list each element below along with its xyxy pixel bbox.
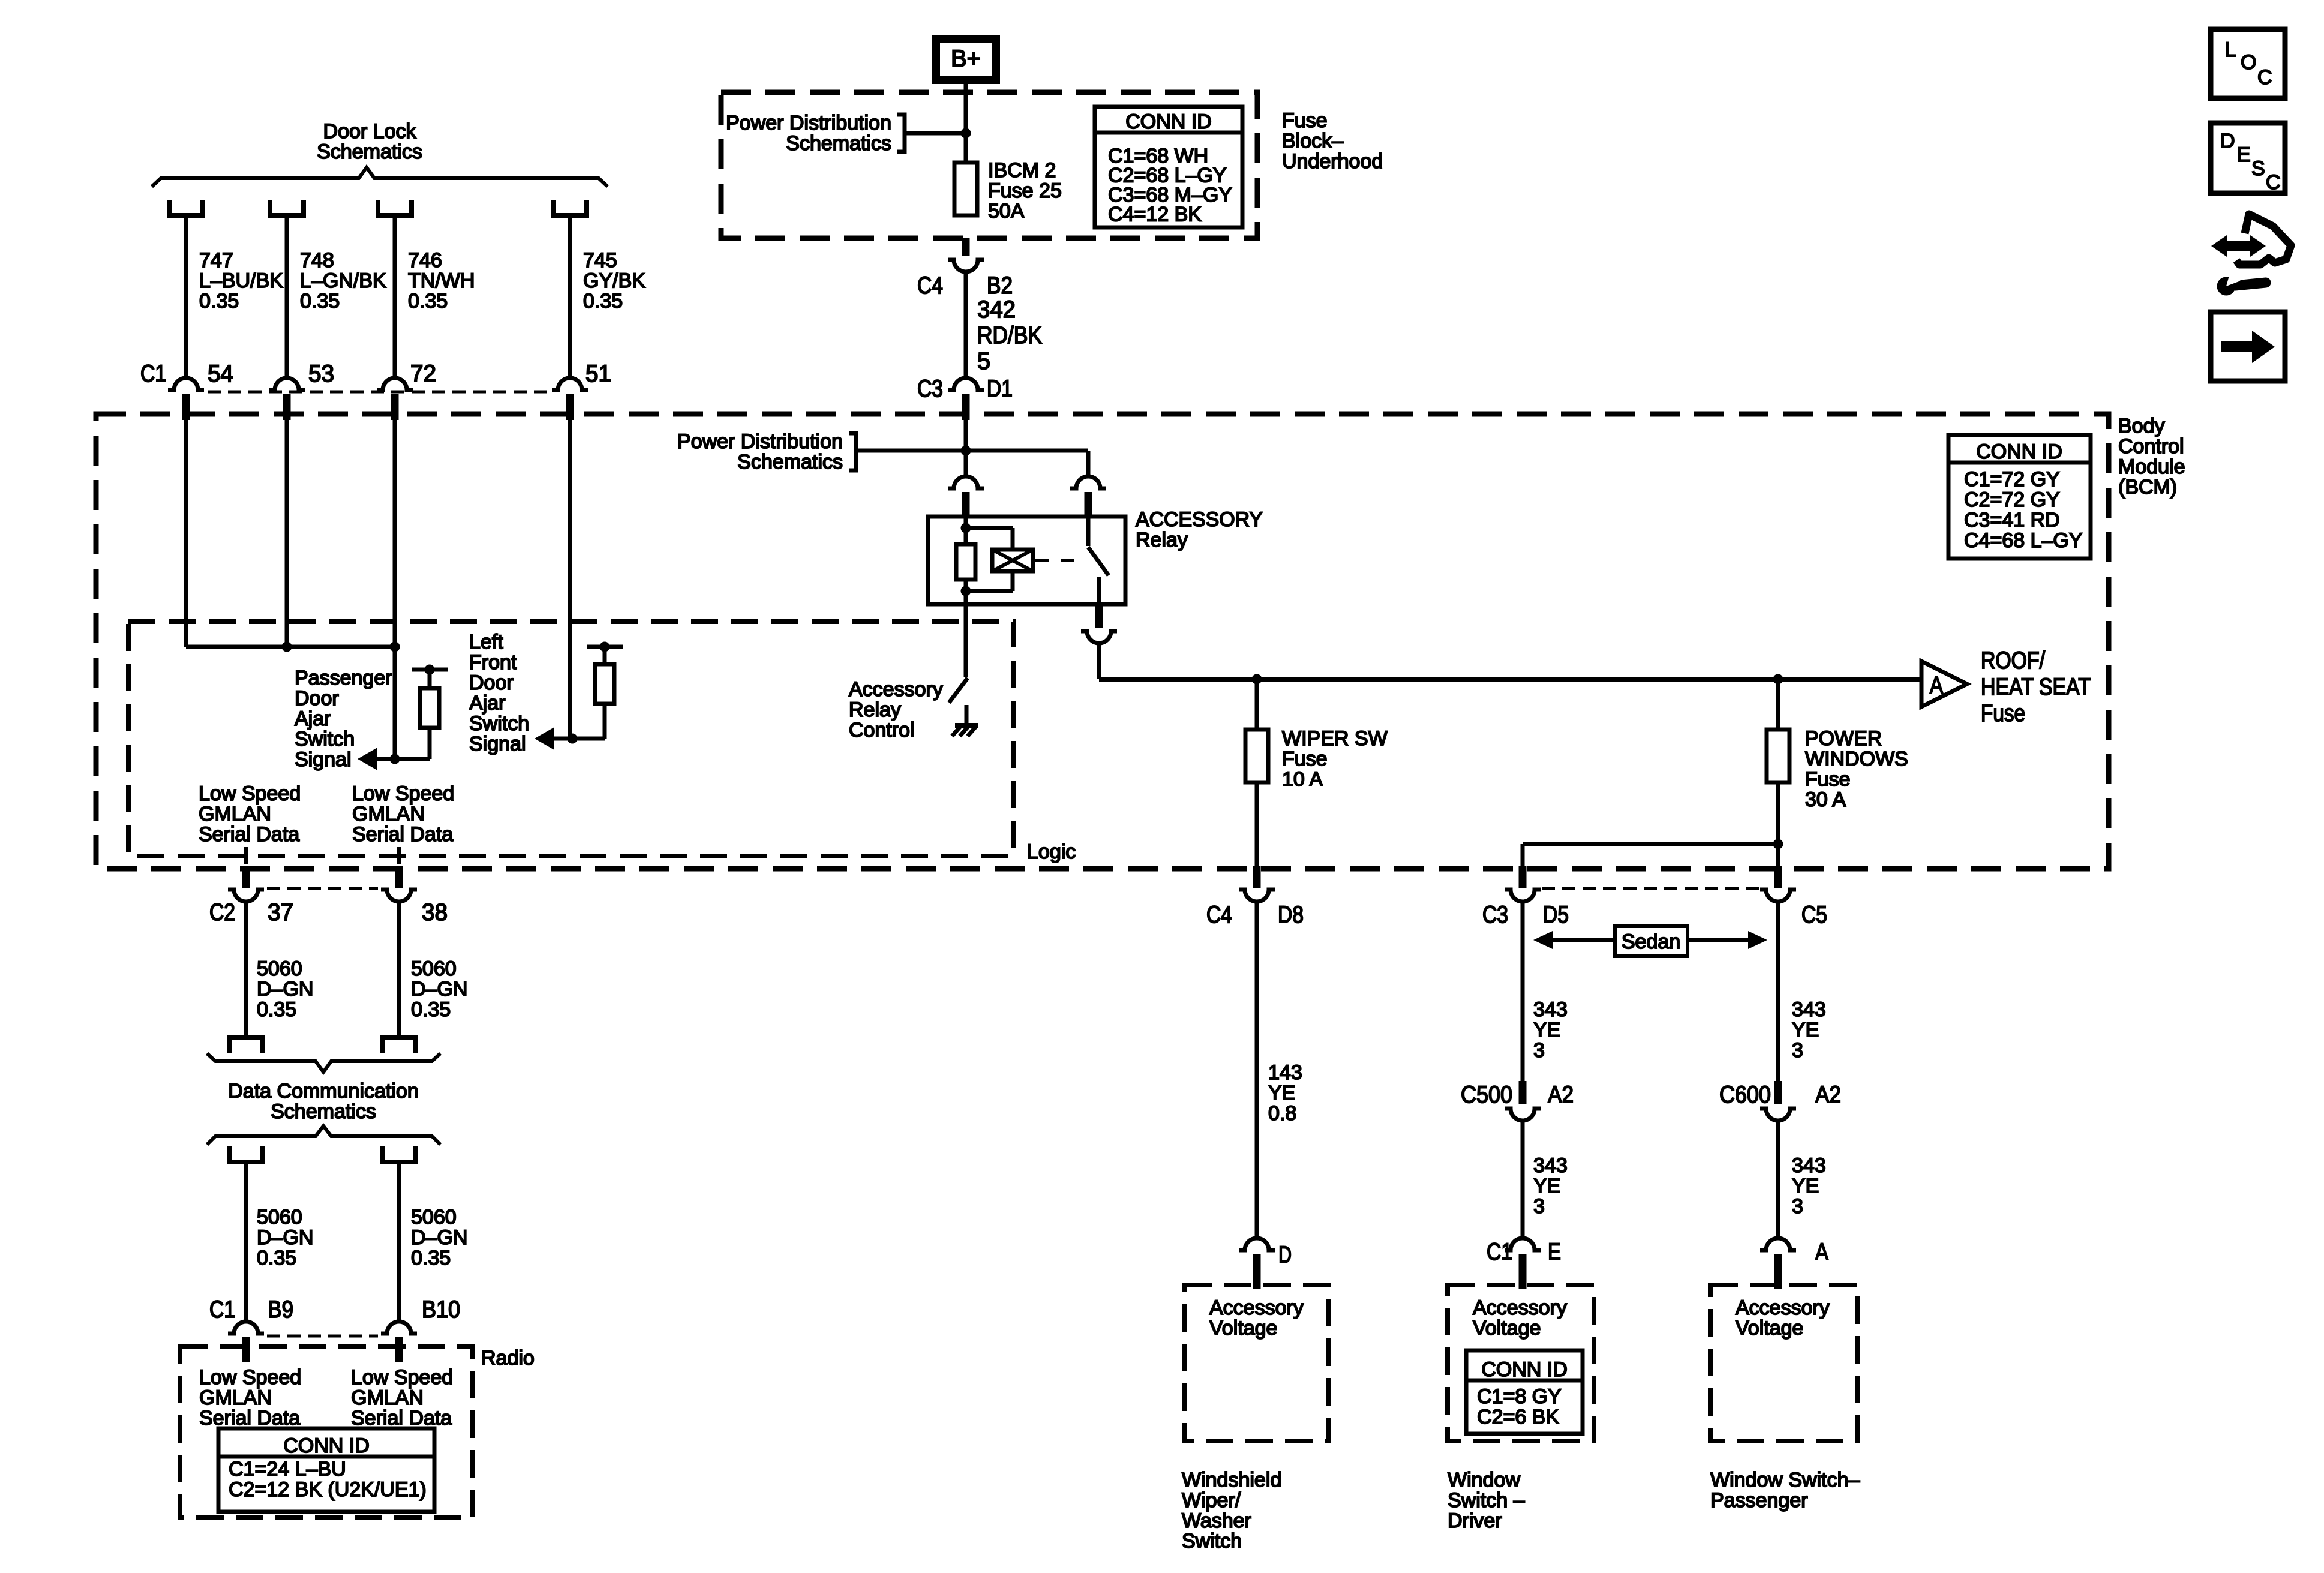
connector C3/C5 dashed link bbox=[1542, 887, 1761, 890]
svg-text:Body: Body bbox=[2118, 415, 2165, 437]
accessory voltage feed wire bbox=[1097, 643, 1101, 679]
wire 748 L–GN/BK 0.35 bbox=[285, 215, 289, 379]
svg-text:Switch –: Switch – bbox=[1448, 1489, 1525, 1512]
Sedan range arrow bbox=[1545, 938, 1755, 942]
svg-text:Low Speed: Low Speed bbox=[199, 782, 301, 805]
svg-text:Power Distribution: Power Distribution bbox=[726, 112, 891, 134]
svg-text:5: 5 bbox=[977, 348, 990, 374]
svg-text:A: A bbox=[1815, 1239, 1828, 1265]
svg-text:Door: Door bbox=[295, 687, 339, 710]
junction node bbox=[1252, 674, 1262, 685]
connector arc C1 bbox=[269, 378, 305, 390]
fuse block underhood dashed box bbox=[721, 92, 1257, 238]
connector to door lock schematic, wire 745 bbox=[553, 200, 587, 215]
svg-text:5060: 5060 bbox=[257, 1206, 302, 1229]
svg-text:ROOF/: ROOF/ bbox=[1981, 647, 2046, 674]
svg-text:0.35: 0.35 bbox=[257, 998, 296, 1021]
svg-text:0.8: 0.8 bbox=[1268, 1102, 1296, 1125]
svg-text:ACCESSORY: ACCESSORY bbox=[1136, 508, 1263, 531]
svg-text:B+: B+ bbox=[951, 46, 981, 72]
connector C3 pin D5 bbox=[1519, 866, 1527, 888]
connector C2 pin 38 bbox=[395, 866, 403, 888]
svg-text:D: D bbox=[1278, 1242, 1292, 1268]
svg-text:C2=12 BK (U2K/UE1): C2=12 BK (U2K/UE1) bbox=[229, 1478, 427, 1501]
svg-text:Ajar: Ajar bbox=[469, 692, 505, 715]
svg-text:Fuse: Fuse bbox=[1282, 748, 1328, 770]
connector C5 bbox=[1774, 866, 1782, 888]
bus wire joining door ajar inputs bbox=[186, 645, 395, 649]
svg-text:Accessory: Accessory bbox=[1209, 1296, 1304, 1319]
svg-text:Washer: Washer bbox=[1182, 1509, 1251, 1532]
svg-text:Block–: Block– bbox=[1282, 130, 1343, 152]
svg-text:Accessory: Accessory bbox=[1736, 1296, 1830, 1319]
CONN ID table (driver switch) bbox=[1466, 1350, 1583, 1434]
connector from data communication schematics bbox=[229, 1146, 263, 1162]
svg-text:GMLAN: GMLAN bbox=[199, 803, 271, 825]
connector C1 dashed link bbox=[208, 391, 548, 394]
pin stub bbox=[566, 394, 574, 420]
svg-text:Logic: Logic bbox=[1027, 840, 1076, 863]
svg-text:0.35: 0.35 bbox=[408, 290, 448, 313]
bracket to power distribution schematics bbox=[897, 115, 905, 152]
svg-text:D1: D1 bbox=[987, 376, 1013, 402]
svg-text:C4: C4 bbox=[1206, 902, 1232, 928]
svg-text:D8: D8 bbox=[1278, 902, 1304, 928]
svg-text:Schematics: Schematics bbox=[271, 1100, 376, 1123]
svg-text:Sedan: Sedan bbox=[1622, 930, 1680, 953]
svg-text:B9: B9 bbox=[268, 1296, 293, 1323]
svg-text:Voltage: Voltage bbox=[1209, 1317, 1277, 1340]
WIPER SW fuse 10A bbox=[1255, 679, 1259, 730]
wire 143 YE 0.8 bbox=[1255, 900, 1259, 1238]
DESC icon box bbox=[2211, 123, 2285, 193]
wire 748 into BCM bbox=[285, 420, 289, 647]
POWER WINDOWS fuse 30A bbox=[1776, 679, 1780, 730]
svg-text:Schematics: Schematics bbox=[317, 140, 422, 163]
wire 745 GY/BK 0.35 bbox=[568, 215, 572, 379]
GMLAN wire 38 bbox=[397, 847, 401, 864]
connector to data communication schematics bbox=[229, 1037, 263, 1053]
connector arc C1 bbox=[377, 378, 413, 390]
relay mechanical link (dashed) bbox=[1035, 559, 1081, 562]
svg-text:3: 3 bbox=[1792, 1039, 1803, 1062]
svg-text:Control: Control bbox=[2118, 435, 2184, 458]
svg-text:72: 72 bbox=[410, 361, 436, 387]
svg-text:D: D bbox=[2220, 130, 2235, 152]
svg-text:YE: YE bbox=[1792, 1019, 1819, 1041]
junction node bbox=[282, 642, 292, 652]
svg-text:WINDOWS: WINDOWS bbox=[1805, 748, 1908, 770]
svg-text:0.35: 0.35 bbox=[300, 290, 340, 313]
svg-text:L–BU/BK: L–BU/BK bbox=[199, 269, 283, 292]
svg-text:Switch: Switch bbox=[469, 712, 529, 735]
Sedan box bbox=[1615, 926, 1688, 956]
svg-text:POWER: POWER bbox=[1805, 727, 1882, 750]
svg-text:WIPER SW: WIPER SW bbox=[1282, 727, 1388, 750]
window switch passenger dashed box bbox=[1710, 1285, 1857, 1441]
svg-text:YE: YE bbox=[1792, 1175, 1819, 1197]
svg-text:Signal: Signal bbox=[469, 733, 526, 755]
svg-text:YE: YE bbox=[1533, 1175, 1560, 1197]
Logic dashed box bbox=[128, 622, 1014, 856]
radio GMLAN wire (B10) bbox=[397, 1162, 401, 1322]
svg-text:Fuse: Fuse bbox=[1805, 768, 1851, 791]
svg-text:747: 747 bbox=[199, 249, 233, 272]
connector arc C1 bbox=[552, 378, 588, 390]
svg-text:5060: 5060 bbox=[411, 1206, 457, 1229]
connector C4/B2 below fuse block bbox=[962, 238, 970, 256]
svg-text:Switch: Switch bbox=[1182, 1530, 1242, 1553]
svg-text:B2: B2 bbox=[987, 272, 1013, 299]
svg-text:L: L bbox=[2225, 38, 2236, 61]
svg-text:343: 343 bbox=[1792, 998, 1826, 1021]
svg-text:(BCM): (BCM) bbox=[2118, 476, 2177, 499]
svg-text:0.35: 0.35 bbox=[583, 290, 623, 313]
svg-text:GMLAN: GMLAN bbox=[351, 1386, 424, 1409]
diagnostic icon vehicle outline bbox=[2236, 214, 2291, 265]
svg-text:IBCM 2: IBCM 2 bbox=[988, 159, 1056, 182]
LOC icon box bbox=[2211, 29, 2285, 98]
wire 747 L–BU/BK 0.35 bbox=[184, 215, 188, 379]
svg-text:C: C bbox=[2257, 66, 2272, 89]
svg-text:Accessory: Accessory bbox=[1473, 1296, 1567, 1319]
svg-text:CONN ID: CONN ID bbox=[1481, 1358, 1568, 1381]
svg-text:C2: C2 bbox=[209, 899, 235, 926]
relay switch bbox=[1086, 518, 1091, 546]
svg-text:745: 745 bbox=[583, 249, 617, 272]
svg-text:C1: C1 bbox=[209, 1296, 235, 1323]
svg-text:C2=72 GY: C2=72 GY bbox=[1964, 488, 2060, 511]
svg-text:54: 54 bbox=[208, 361, 233, 387]
svg-text:Low Speed: Low Speed bbox=[352, 782, 454, 805]
junction node bbox=[961, 446, 971, 456]
CONN ID table (fuse block) bbox=[1095, 107, 1242, 227]
brace to data communication schematics bbox=[207, 1053, 440, 1072]
brace from data communication schematics bbox=[207, 1126, 440, 1145]
connector from data communication schematics bbox=[382, 1146, 416, 1162]
connector to data communication schematics bbox=[382, 1037, 416, 1053]
wire bracket to accessory relay bbox=[856, 449, 1088, 453]
svg-text:Ajar: Ajar bbox=[295, 707, 331, 730]
svg-text:Front: Front bbox=[469, 651, 517, 674]
svg-text:CONN ID: CONN ID bbox=[1125, 110, 1212, 133]
svg-text:343: 343 bbox=[1792, 1154, 1826, 1177]
svg-text:Schematics: Schematics bbox=[737, 451, 843, 473]
svg-text:10 A: 10 A bbox=[1282, 768, 1323, 791]
GMLAN wire 5060 (38) bbox=[397, 900, 401, 1037]
passenger door ajar pull-up resistor bbox=[412, 668, 448, 672]
svg-text:S: S bbox=[2251, 157, 2265, 180]
svg-text:Passenger: Passenger bbox=[295, 667, 392, 689]
Body Control Module dashed box bbox=[96, 414, 2109, 869]
svg-text:C600: C600 bbox=[1719, 1082, 1771, 1108]
connector to door lock schematic, wire 748 bbox=[270, 200, 304, 215]
svg-text:C3: C3 bbox=[917, 376, 943, 402]
svg-text:C: C bbox=[2266, 171, 2281, 194]
svg-text:C1=24 L–BU: C1=24 L–BU bbox=[229, 1458, 346, 1481]
brace to Door Lock Schematics bbox=[152, 167, 608, 187]
left front door ajar pull-up resistor bbox=[587, 645, 623, 649]
svg-text:C4: C4 bbox=[917, 272, 943, 299]
svg-text:Control: Control bbox=[849, 719, 915, 742]
svg-text:Power Distribution: Power Distribution bbox=[677, 430, 843, 453]
svg-text:L–GN/BK: L–GN/BK bbox=[300, 269, 386, 292]
svg-text:Signal: Signal bbox=[295, 748, 352, 771]
svg-text:C1=8 GY: C1=8 GY bbox=[1477, 1385, 1562, 1408]
svg-text:5060: 5060 bbox=[411, 957, 457, 980]
connector arc C1 bbox=[168, 378, 204, 390]
svg-text:3: 3 bbox=[1792, 1195, 1803, 1218]
junction node bbox=[1773, 674, 1783, 685]
arrow passenger door ajar switch signal bbox=[358, 748, 377, 770]
pin stub bbox=[283, 394, 291, 420]
relay output connector bbox=[1095, 604, 1103, 628]
wire 746 TN/WH 0.35 bbox=[393, 215, 397, 379]
radio GMLAN wire (B9) bbox=[244, 1162, 248, 1322]
svg-text:343: 343 bbox=[1533, 1154, 1568, 1177]
svg-text:Switch: Switch bbox=[295, 728, 355, 751]
svg-text:C1: C1 bbox=[140, 361, 166, 387]
svg-text:Data Communication: Data Communication bbox=[228, 1080, 418, 1103]
svg-text:Passenger: Passenger bbox=[1710, 1489, 1808, 1512]
svg-text:Serial Data: Serial Data bbox=[351, 1407, 452, 1430]
svg-text:CONN ID: CONN ID bbox=[1976, 440, 2062, 463]
diagnostic icon double arrow bbox=[2224, 241, 2252, 251]
svg-text:CONN ID: CONN ID bbox=[283, 1434, 370, 1457]
svg-text:Relay: Relay bbox=[849, 698, 901, 721]
svg-text:143: 143 bbox=[1268, 1061, 1302, 1084]
svg-text:342: 342 bbox=[977, 296, 1016, 323]
GMLAN wire 5060 (37) bbox=[244, 900, 248, 1037]
svg-text:Voltage: Voltage bbox=[1473, 1317, 1541, 1340]
fuse IBCM 2 Fuse 25 50A bbox=[954, 163, 977, 215]
svg-text:B10: B10 bbox=[422, 1296, 460, 1323]
wire into relay switch feed bbox=[1086, 451, 1091, 476]
svg-text:Serial Data: Serial Data bbox=[199, 1407, 300, 1430]
svg-text:Fuse: Fuse bbox=[1981, 700, 2025, 727]
svg-text:C2=6 BK: C2=6 BK bbox=[1477, 1406, 1559, 1428]
connector arc relay switch feed bbox=[1070, 476, 1106, 488]
svg-text:O: O bbox=[2241, 51, 2256, 74]
svg-text:TN/WH: TN/WH bbox=[408, 269, 475, 292]
svg-text:53: 53 bbox=[308, 361, 334, 387]
svg-text:50A: 50A bbox=[988, 200, 1025, 223]
svg-text:Fuse 25: Fuse 25 bbox=[988, 179, 1062, 202]
svg-text:GMLAN: GMLAN bbox=[352, 803, 425, 825]
svg-text:Module: Module bbox=[2118, 455, 2185, 478]
connector arc relay coil feed bbox=[948, 476, 984, 488]
forward arrow icon box bbox=[2211, 312, 2285, 381]
svg-text:E: E bbox=[1548, 1239, 1561, 1265]
svg-text:D–GN: D–GN bbox=[411, 978, 467, 1001]
svg-text:GY/BK: GY/BK bbox=[583, 269, 645, 292]
svg-text:0.35: 0.35 bbox=[257, 1247, 296, 1269]
svg-text:Wiper/: Wiper/ bbox=[1182, 1489, 1241, 1512]
svg-text:C1=72 GY: C1=72 GY bbox=[1964, 468, 2060, 491]
wire bracket to B+ feed bbox=[905, 131, 966, 136]
connector C1 dashed link bbox=[267, 1335, 378, 1338]
wire 343 YE 3 (driver lower) bbox=[1521, 1121, 1525, 1238]
wire B+ to fuse bbox=[964, 83, 968, 163]
wire to left front signal arrow bbox=[554, 737, 605, 741]
svg-text:YE: YE bbox=[1268, 1082, 1295, 1104]
svg-text:C4=12 BK: C4=12 BK bbox=[1108, 203, 1202, 226]
GMLAN wire 37 bbox=[244, 847, 248, 864]
relay suppressor branch bbox=[966, 526, 1013, 530]
connector to door lock schematic, wire 747 bbox=[169, 200, 203, 215]
svg-text:746: 746 bbox=[408, 249, 442, 272]
junction node bbox=[1773, 839, 1783, 849]
connector C4 pin D8 bbox=[1253, 866, 1261, 888]
svg-text:Low Speed: Low Speed bbox=[199, 1366, 301, 1389]
svg-text:5060: 5060 bbox=[257, 957, 302, 980]
wire to passenger signal arrow bbox=[377, 757, 430, 761]
arrow left front door ajar switch signal bbox=[535, 727, 554, 750]
svg-text:D–GN: D–GN bbox=[257, 978, 313, 1001]
connector C2 pin 37 bbox=[242, 866, 250, 888]
svg-text:Serial Data: Serial Data bbox=[199, 823, 299, 846]
svg-text:C4=68 L–GY: C4=68 L–GY bbox=[1964, 529, 2083, 552]
svg-text:343: 343 bbox=[1533, 998, 1568, 1021]
connector to door lock schematic, wire 746 bbox=[378, 200, 412, 215]
svg-text:37: 37 bbox=[268, 899, 293, 926]
svg-text:A: A bbox=[1930, 672, 1943, 698]
svg-text:Accessory: Accessory bbox=[849, 678, 943, 701]
svg-text:C3=41 RD: C3=41 RD bbox=[1964, 509, 2060, 532]
wire 745 into BCM bbox=[568, 420, 572, 739]
junction node bbox=[961, 128, 971, 139]
bracket to power distribution schematics bbox=[849, 433, 856, 470]
svg-text:A2: A2 bbox=[1548, 1082, 1574, 1108]
svg-text:Window Switch–: Window Switch– bbox=[1710, 1469, 1860, 1491]
svg-text:Underhood: Underhood bbox=[1282, 150, 1383, 173]
Radio dashed box bbox=[180, 1347, 473, 1518]
svg-text:GMLAN: GMLAN bbox=[199, 1386, 272, 1409]
wire 342 RD/BK 5 bbox=[964, 272, 968, 379]
svg-text:3: 3 bbox=[1533, 1195, 1545, 1218]
junction node bbox=[390, 642, 400, 652]
svg-text:Fuse: Fuse bbox=[1282, 109, 1328, 132]
svg-text:Windshield: Windshield bbox=[1182, 1469, 1281, 1491]
wire into relay coil bbox=[964, 420, 968, 476]
svg-text:Relay: Relay bbox=[1136, 529, 1188, 551]
svg-text:RD/BK: RD/BK bbox=[977, 322, 1042, 349]
pin stub bbox=[391, 394, 399, 420]
wire 343 YE 3 (driver upper) bbox=[1521, 900, 1525, 1081]
svg-text:D–GN: D–GN bbox=[411, 1226, 467, 1249]
window switch driver dashed box bbox=[1448, 1285, 1594, 1441]
svg-text:Voltage: Voltage bbox=[1736, 1317, 1803, 1340]
svg-text:3: 3 bbox=[1533, 1039, 1545, 1062]
triangle A (roof/heat seat fuse feed) bbox=[1921, 661, 1967, 707]
svg-text:C500: C500 bbox=[1461, 1082, 1512, 1108]
svg-text:Driver: Driver bbox=[1448, 1509, 1502, 1532]
svg-text:Door Lock: Door Lock bbox=[323, 120, 417, 143]
svg-text:D5: D5 bbox=[1543, 902, 1569, 928]
diagnostic icon wrench bbox=[2235, 283, 2266, 286]
svg-text:Serial Data: Serial Data bbox=[352, 823, 453, 846]
svg-text:0.35: 0.35 bbox=[199, 290, 239, 313]
svg-text:0.35: 0.35 bbox=[411, 998, 451, 1021]
pin stub bbox=[182, 394, 190, 420]
svg-text:Window: Window bbox=[1448, 1469, 1520, 1491]
wire 343 YE 3 (passenger upper) bbox=[1776, 900, 1780, 1081]
ground symbol bbox=[965, 705, 969, 725]
relay coil bbox=[964, 517, 968, 544]
svg-text:Schematics: Schematics bbox=[786, 132, 891, 155]
svg-text:Door: Door bbox=[469, 671, 514, 694]
windshield wiper/washer switch dashed box bbox=[1184, 1285, 1329, 1441]
svg-text:HEAT SEAT: HEAT SEAT bbox=[1981, 674, 2091, 700]
svg-text:Low Speed: Low Speed bbox=[351, 1366, 453, 1389]
svg-text:Radio: Radio bbox=[481, 1347, 535, 1370]
connector C2 dashed link bbox=[267, 887, 378, 890]
svg-text:E: E bbox=[2237, 143, 2251, 166]
wire 746 into BCM bbox=[393, 420, 397, 759]
svg-text:C5: C5 bbox=[1801, 902, 1827, 928]
svg-text:C3: C3 bbox=[1482, 902, 1508, 928]
ACCESSORY Relay box bbox=[928, 517, 1125, 604]
CONN ID table (radio) bbox=[218, 1428, 434, 1512]
wire branch to window switch driver bbox=[1523, 842, 1778, 846]
svg-text:0.35: 0.35 bbox=[411, 1247, 451, 1269]
svg-text:A2: A2 bbox=[1815, 1082, 1841, 1108]
svg-text:748: 748 bbox=[300, 249, 334, 272]
battery feed B+ bbox=[936, 39, 996, 80]
wire 747 into BCM bbox=[184, 420, 188, 647]
CONN ID table (BCM) bbox=[1948, 435, 2091, 559]
wire 343 YE 3 (passenger lower) bbox=[1776, 1121, 1780, 1238]
svg-text:30 A: 30 A bbox=[1805, 788, 1846, 811]
svg-text:51: 51 bbox=[585, 361, 611, 387]
svg-text:Left: Left bbox=[469, 631, 503, 653]
svg-text:38: 38 bbox=[422, 899, 448, 926]
suppressor box with X bbox=[992, 550, 1033, 571]
svg-text:D–GN: D–GN bbox=[257, 1226, 313, 1249]
accessory relay control switch bbox=[964, 604, 968, 677]
svg-text:YE: YE bbox=[1533, 1019, 1560, 1041]
